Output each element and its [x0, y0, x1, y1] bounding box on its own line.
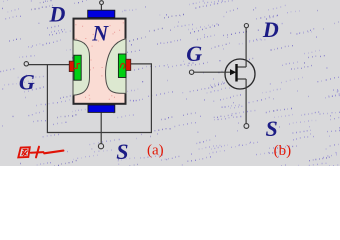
svg-text:G: G	[19, 69, 35, 94]
svg-text:S: S	[116, 139, 128, 164]
svg-text:N: N	[91, 21, 109, 46]
svg-text:D: D	[49, 1, 66, 26]
svg-text:S: S	[266, 116, 278, 141]
svg-text:D: D	[262, 17, 279, 42]
svg-text:G: G	[186, 41, 202, 66]
svg-text:(b): (b)	[274, 143, 292, 159]
svg-text:(a): (a)	[147, 142, 164, 158]
